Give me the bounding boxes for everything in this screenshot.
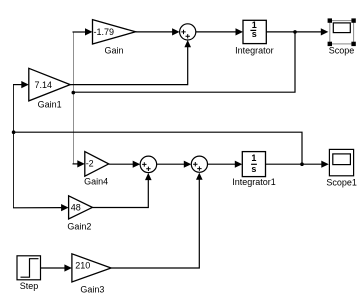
svg-text:48: 48 xyxy=(71,202,81,212)
integrator block Integrator 1/s xyxy=(243,20,266,44)
wire: Integrator output to Scope with branch xyxy=(266,28,328,35)
label Integrator xyxy=(235,46,274,56)
gain block Gain4 value -2 xyxy=(85,152,109,177)
step source block Step xyxy=(17,256,41,280)
wire: Gain2 input from x2 branch xyxy=(13,204,69,211)
junction dot at (73,92) on x1 branch xyxy=(72,91,76,95)
wire: Sum2 output to Integrator1 input xyxy=(208,161,243,168)
wire: elbow into Gain4 input from x1 branch xyxy=(73,160,85,167)
svg-text:Gain: Gain xyxy=(104,46,123,56)
wire: x2 feedback horizontal y=133 from junction to x=302 and down to Integrator1 output xyxy=(14,132,302,164)
scope block Scope1 xyxy=(329,149,353,175)
svg-text:Gain4: Gain4 xyxy=(84,177,108,187)
gain block Gain3 value 210 xyxy=(72,254,111,282)
label Gain3 xyxy=(80,285,104,295)
svg-text:Step: Step xyxy=(20,281,39,291)
label Scope1 xyxy=(326,177,357,187)
label Gain xyxy=(104,46,123,56)
gain block Gain2 value 48 xyxy=(69,196,93,219)
svg-text:Integrator1: Integrator1 xyxy=(232,177,276,187)
svg-text:Gain1: Gain1 xyxy=(38,100,62,110)
wire: elbow into Gain input from x1 branch xyxy=(73,28,93,35)
svg-text:Scope: Scope xyxy=(329,45,355,55)
wire: Step output to Gain3 input xyxy=(41,264,72,271)
wire: Gain1 output right then up into Sum bottom input xyxy=(70,40,191,85)
label Scope xyxy=(329,45,355,55)
wire: Gain1 input from x2 branch xyxy=(13,81,29,88)
junction dot at (13.5,133) on x2 branch xyxy=(12,130,16,134)
wire: Integrator1 output to Scope1 with branch xyxy=(266,161,329,168)
wire: feedback x1 vertical branch line x=73 (gray) xyxy=(73,32,75,164)
wire: Gain output to Sum input xyxy=(136,28,180,35)
svg-text:Gain3: Gain3 xyxy=(80,285,104,295)
wire: Gain2 output right then up into Sum1 bottom input xyxy=(92,173,151,208)
wire: Gain3 output right then up into Sum2 bottom input xyxy=(111,173,203,268)
wire: Gain4 output to Sum1 left input xyxy=(109,161,141,168)
svg-text:Integrator: Integrator xyxy=(235,46,274,56)
integrator block Integrator1 1/s xyxy=(242,152,265,177)
sum block Sum2 (row 2 second) xyxy=(191,156,207,172)
label Gain4 xyxy=(84,177,108,187)
label Gain2 xyxy=(67,221,91,231)
svg-text:-2: -2 xyxy=(86,159,94,169)
svg-text:Gain2: Gain2 xyxy=(67,221,91,231)
svg-text:-1.79: -1.79 xyxy=(94,27,115,37)
svg-text:s: s xyxy=(251,164,256,174)
label Step xyxy=(20,281,39,291)
sum block Sum1 (row 2 first) xyxy=(140,156,157,173)
svg-text:7.14: 7.14 xyxy=(35,80,53,90)
junction dot at (295,32) on Integrator output xyxy=(293,30,297,34)
wire: x1 feedback horizontal y=92 from junction to x=295 and up to row1 line xyxy=(73,32,295,92)
wire: Sum output to Integrator input xyxy=(196,28,243,35)
label Integrator1 xyxy=(232,177,276,187)
svg-text:210: 210 xyxy=(75,260,90,270)
label Gain1 xyxy=(38,100,62,110)
svg-text:Scope1: Scope1 xyxy=(326,177,357,187)
wire: feedback x2 vertical branch line x=13.5 xyxy=(13,85,15,208)
gain block Gain1 value 7.14 xyxy=(29,68,70,101)
junction dot at (302,164) on Integrator1 output xyxy=(300,162,304,166)
svg-text:s: s xyxy=(252,29,257,39)
wire: Sum1 output to Sum2 left input xyxy=(157,161,192,168)
scope block Scope (selected with handles) xyxy=(328,18,356,46)
gain block Gain value -1.79 xyxy=(93,20,136,44)
svg-text:1: 1 xyxy=(251,153,256,163)
sum block Sum (row 1) xyxy=(180,24,196,40)
